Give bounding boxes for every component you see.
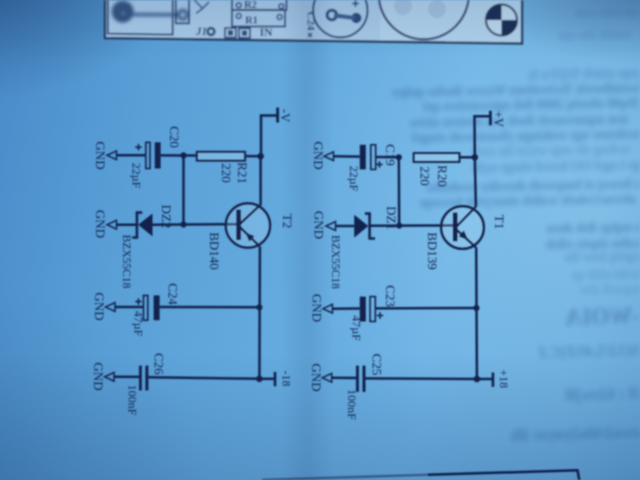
electrolytic cap circle 1 bbox=[313, 0, 367, 37]
node (+18 junction) bbox=[474, 376, 481, 383]
terminal +18 bbox=[492, 373, 495, 387]
zener diode DZ1 BZX55C18 bbox=[365, 214, 375, 239]
node (DZ1/base) bbox=[396, 223, 402, 229]
wire to -18 terminal bbox=[259, 378, 274, 381]
pad ring under J1 bbox=[208, 28, 215, 35]
node (DZ2/base) bbox=[180, 221, 186, 227]
transistor T1 BD139 (NPN) bbox=[441, 206, 484, 249]
wire to +18 terminal bbox=[477, 378, 492, 381]
resistor R1 outline bbox=[232, 10, 285, 27]
pad box (left component) bbox=[108, 0, 173, 35]
emitter rail down bbox=[475, 248, 478, 379]
wire bbox=[115, 306, 143, 309]
power flag -V bbox=[276, 108, 279, 123]
wire to emitter rail bbox=[160, 306, 260, 309]
ground (row1 right) bbox=[324, 152, 334, 161]
wire base bbox=[184, 223, 238, 226]
wire bbox=[161, 154, 197, 157]
node (-18 junction) bbox=[256, 376, 263, 383]
node (R21/collector/-V) bbox=[257, 153, 264, 160]
capacitor C23 47uF bbox=[360, 297, 366, 322]
capacitor C19 22uF bbox=[360, 145, 366, 170]
collector wire bbox=[475, 157, 476, 206]
resistor R2 outline bbox=[232, 0, 287, 10]
capacitor C25 100nF bbox=[356, 366, 359, 392]
wire down to DZ1 row bbox=[398, 157, 401, 225]
wire -V to corner bbox=[261, 116, 277, 157]
wire down to DZ2 row bbox=[182, 155, 185, 224]
wire bbox=[334, 155, 360, 158]
terminal -18 bbox=[274, 372, 277, 386]
ground (row2 left) bbox=[107, 220, 117, 229]
node (C20/R21/DZ2) bbox=[180, 152, 186, 158]
wire +V to corner bbox=[475, 116, 490, 157]
PCB outline bbox=[105, 0, 522, 44]
wire bbox=[332, 377, 356, 380]
electrolytic cap circle 2 bbox=[379, 0, 469, 39]
faint show-through lines, top right corner bbox=[558, 5, 638, 42]
wire bbox=[459, 156, 474, 159]
node (R20/collector/+V) bbox=[472, 154, 479, 161]
ground (row3 right) bbox=[323, 304, 333, 313]
transistor T2 BD140 (PNP) bbox=[226, 203, 270, 247]
ground (row2 right) bbox=[326, 222, 336, 231]
emitter rail down bbox=[258, 247, 261, 379]
wire base bbox=[399, 224, 453, 227]
wire to node bbox=[148, 377, 259, 379]
resistor R20 220 bbox=[414, 153, 460, 162]
wire bbox=[245, 155, 261, 158]
resistor R21 220 bbox=[197, 152, 245, 161]
power flag +V bbox=[489, 111, 492, 125]
wire diode to node bbox=[370, 224, 400, 227]
wire bbox=[117, 223, 136, 226]
capacitor C26 100nF bbox=[139, 366, 142, 391]
ground (row4 right) bbox=[322, 373, 332, 382]
ground (row4 left) bbox=[105, 372, 115, 381]
ground (row3 left) bbox=[106, 303, 116, 312]
PCB board light paper area bbox=[105, 0, 522, 44]
wire bbox=[114, 376, 139, 379]
node (C23/emitter rail) bbox=[473, 305, 479, 311]
connector box J1 bbox=[176, 0, 189, 23]
zener diode DZ2 BZX55C18 bbox=[132, 213, 142, 238]
capacitor C20 22uF bbox=[146, 142, 150, 168]
wire bbox=[376, 156, 399, 159]
PNP emitter arrow bbox=[246, 233, 255, 242]
bottom-right figure box corner bbox=[262, 470, 579, 480]
node (C24/emitter rail) bbox=[256, 304, 262, 310]
fiducial registration mark bbox=[486, 5, 517, 36]
ground (row1 left) bbox=[107, 151, 117, 160]
wire bbox=[333, 307, 360, 310]
zigzag trace bbox=[195, 0, 210, 14]
wire to emitter rail bbox=[375, 307, 476, 310]
collector wire bbox=[259, 156, 262, 205]
node (C19/R20/DZ1) bbox=[396, 154, 402, 160]
NPN emitter arrow bbox=[459, 230, 468, 239]
wire bbox=[336, 225, 354, 228]
wire to node bbox=[365, 377, 477, 380]
wire bbox=[117, 154, 146, 157]
pad squares bbox=[225, 28, 236, 38]
big pad (soft, seen through) bbox=[112, 1, 188, 23]
wire diode to node bbox=[153, 223, 184, 226]
capacitor C24 47uF bbox=[143, 295, 147, 320]
bold heading show-through (bottom right) bbox=[565, 303, 640, 330]
